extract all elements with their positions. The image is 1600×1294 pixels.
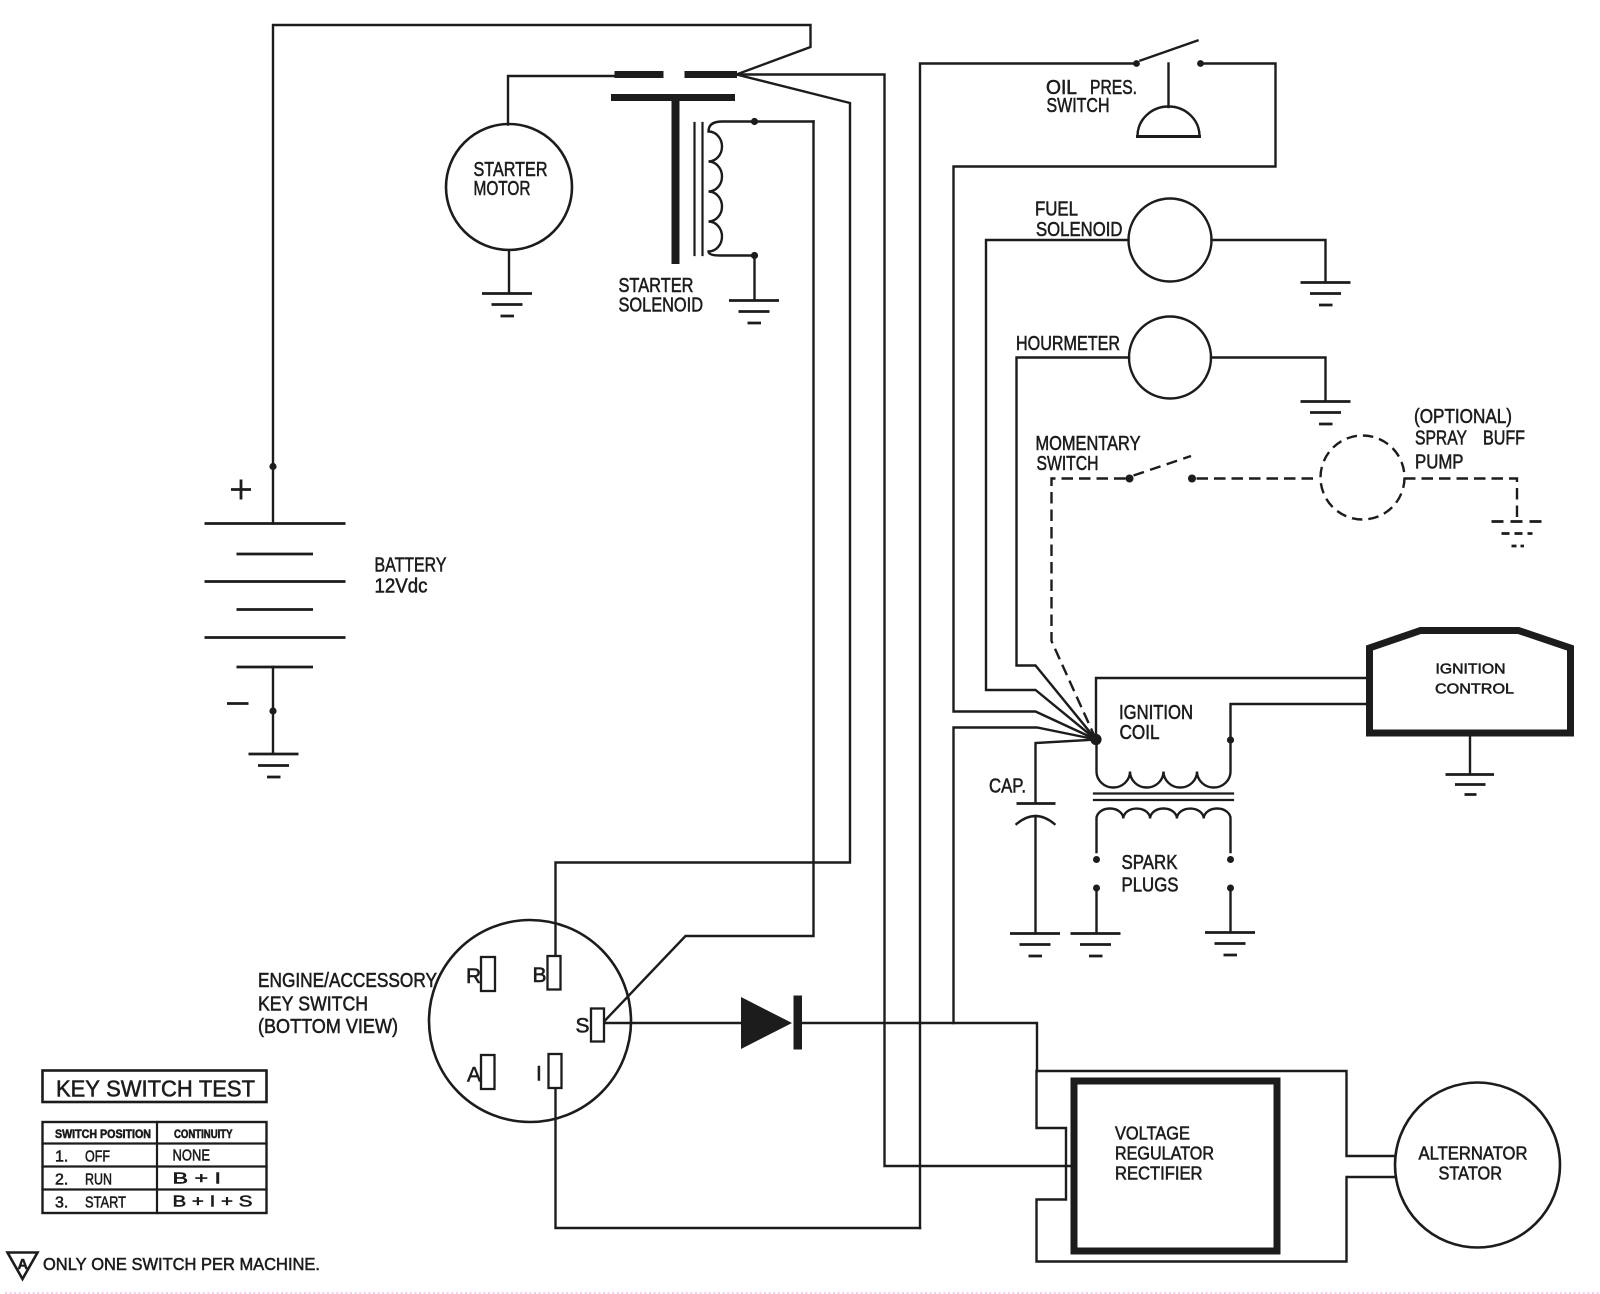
svg-text:MOMENTARY: MOMENTARY	[1036, 433, 1141, 455]
svg-text:FUEL: FUEL	[1035, 199, 1078, 221]
svg-text:MOTOR: MOTOR	[474, 178, 531, 200]
svg-text:1.: 1.	[55, 1149, 68, 1166]
svg-text:CONTROL: CONTROL	[1435, 681, 1514, 698]
svg-text:RUN: RUN	[85, 1172, 112, 1189]
svg-text:2.: 2.	[55, 1172, 68, 1189]
svg-text:PUMP: PUMP	[1415, 452, 1464, 474]
svg-text:OFF: OFF	[85, 1149, 110, 1166]
svg-text:B + I + S: B + I + S	[173, 1194, 253, 1211]
svg-text:COIL: COIL	[1120, 722, 1160, 744]
svg-text:B + I: B + I	[173, 1171, 222, 1188]
svg-text:B: B	[533, 964, 547, 987]
svg-text:VOLTAGE: VOLTAGE	[1115, 1124, 1190, 1144]
svg-text:NONE: NONE	[173, 1148, 211, 1165]
svg-text:BUFF: BUFF	[1483, 428, 1525, 450]
svg-text:S: S	[576, 1015, 590, 1038]
svg-text:IGNITION: IGNITION	[1119, 702, 1193, 724]
svg-text:ONLY ONE SWITCH PER MACHINE.: ONLY ONE SWITCH PER MACHINE.	[43, 1254, 320, 1274]
svg-text:RECTIFIER: RECTIFIER	[1115, 1164, 1203, 1184]
svg-text:SPARK: SPARK	[1122, 852, 1179, 874]
svg-text:CAP.: CAP.	[989, 776, 1026, 798]
svg-text:SOLENOID: SOLENOID	[619, 295, 704, 317]
svg-text:SPRAY: SPRAY	[1415, 428, 1467, 450]
svg-text:ENGINE/ACCESSORY: ENGINE/ACCESSORY	[258, 970, 437, 992]
svg-text:3.: 3.	[55, 1195, 68, 1212]
svg-text:A: A	[467, 1064, 481, 1087]
svg-text:IGNITION: IGNITION	[1436, 661, 1506, 678]
svg-text:STATOR: STATOR	[1439, 1164, 1503, 1184]
svg-text:BATTERY: BATTERY	[375, 555, 447, 577]
svg-text:REGULATOR: REGULATOR	[1115, 1144, 1214, 1164]
svg-text:SWITCH: SWITCH	[1037, 453, 1099, 475]
svg-text:ALTERNATOR: ALTERNATOR	[1419, 1144, 1528, 1164]
svg-text:(OPTIONAL): (OPTIONAL)	[1414, 406, 1512, 428]
svg-text:A: A	[18, 1257, 29, 1273]
svg-text:CONTINUITY: CONTINUITY	[174, 1129, 233, 1141]
svg-text:SWITCH POSITION: SWITCH POSITION	[55, 1129, 151, 1141]
svg-text:R: R	[466, 965, 481, 988]
svg-text:SOLENOID: SOLENOID	[1036, 219, 1123, 241]
svg-text:I: I	[536, 1063, 542, 1086]
svg-text:PLUGS: PLUGS	[1122, 875, 1179, 897]
svg-text:START: START	[85, 1195, 126, 1212]
svg-text:(BOTTOM VIEW): (BOTTOM VIEW)	[258, 1016, 398, 1038]
svg-text:SWITCH: SWITCH	[1047, 95, 1110, 117]
svg-text:12Vdc: 12Vdc	[375, 576, 428, 598]
svg-text:KEY SWITCH: KEY SWITCH	[258, 994, 368, 1016]
svg-text:KEY SWITCH TEST: KEY SWITCH TEST	[56, 1076, 255, 1102]
svg-text:HOURMETER: HOURMETER	[1016, 333, 1120, 355]
